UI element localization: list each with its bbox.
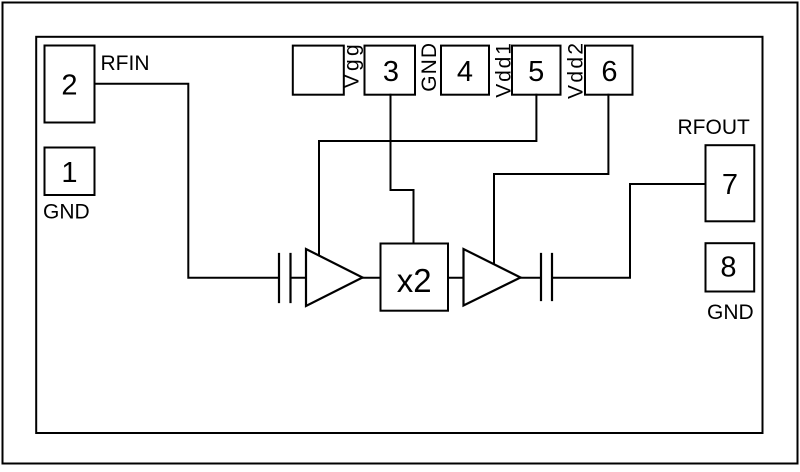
pin box 6 xyxy=(585,46,633,95)
wire pin 6 (Vdd2) to amp A2 xyxy=(494,95,608,263)
pin box 1 xyxy=(45,148,95,196)
pin box 3 xyxy=(365,46,416,95)
wire pin 5 (Vdd1) to amp A1 xyxy=(319,95,536,255)
svg-text:x2: x2 xyxy=(397,262,432,299)
wire A1 to x2 xyxy=(363,277,381,279)
pin box 5 xyxy=(512,46,561,95)
svg-text:2: 2 xyxy=(61,70,77,102)
wire C1 to amp A1 xyxy=(292,277,307,279)
svg-text:Vdd1: Vdd1 xyxy=(492,41,515,98)
wire x2 to amp A2 xyxy=(448,277,464,279)
wire RFIN input from pin 2 xyxy=(95,84,279,278)
svg-text:RFOUT: RFOUT xyxy=(678,116,750,139)
svg-text:6: 6 xyxy=(601,56,617,88)
svg-text:7: 7 xyxy=(722,169,738,201)
op-amp A1 (first amplifier) xyxy=(306,249,363,306)
svg-text:Vgg: Vgg xyxy=(341,41,364,88)
frequency doubler x2 block xyxy=(381,244,449,311)
capacitor C1 (input DC block) xyxy=(279,254,291,302)
svg-text:5: 5 xyxy=(528,56,544,88)
svg-text:1: 1 xyxy=(61,157,77,189)
pin box 4 xyxy=(441,46,489,95)
svg-text:GND: GND xyxy=(418,42,441,92)
pin box 7 xyxy=(706,145,755,221)
svg-text:RFIN: RFIN xyxy=(101,52,150,75)
pin box 2 xyxy=(45,46,95,123)
svg-text:GND: GND xyxy=(43,201,90,224)
svg-text:GND: GND xyxy=(707,301,754,324)
wire pin 3 (Vgg) to x2 block xyxy=(391,95,414,244)
svg-text:4: 4 xyxy=(457,56,473,88)
capacitor C2 (output DC block) xyxy=(541,254,552,300)
wire RFOUT to pin 7 xyxy=(553,184,706,278)
pin box blank (Vgg pad) xyxy=(293,46,344,95)
op-amp A2 (second amplifier) xyxy=(464,249,521,306)
svg-text:8: 8 xyxy=(720,252,736,284)
inner frame xyxy=(36,37,762,433)
pin box 8 xyxy=(706,243,755,291)
svg-text:Vdd2: Vdd2 xyxy=(565,41,588,99)
svg-text:3: 3 xyxy=(383,56,399,88)
wire A2 to C2 xyxy=(521,277,542,279)
